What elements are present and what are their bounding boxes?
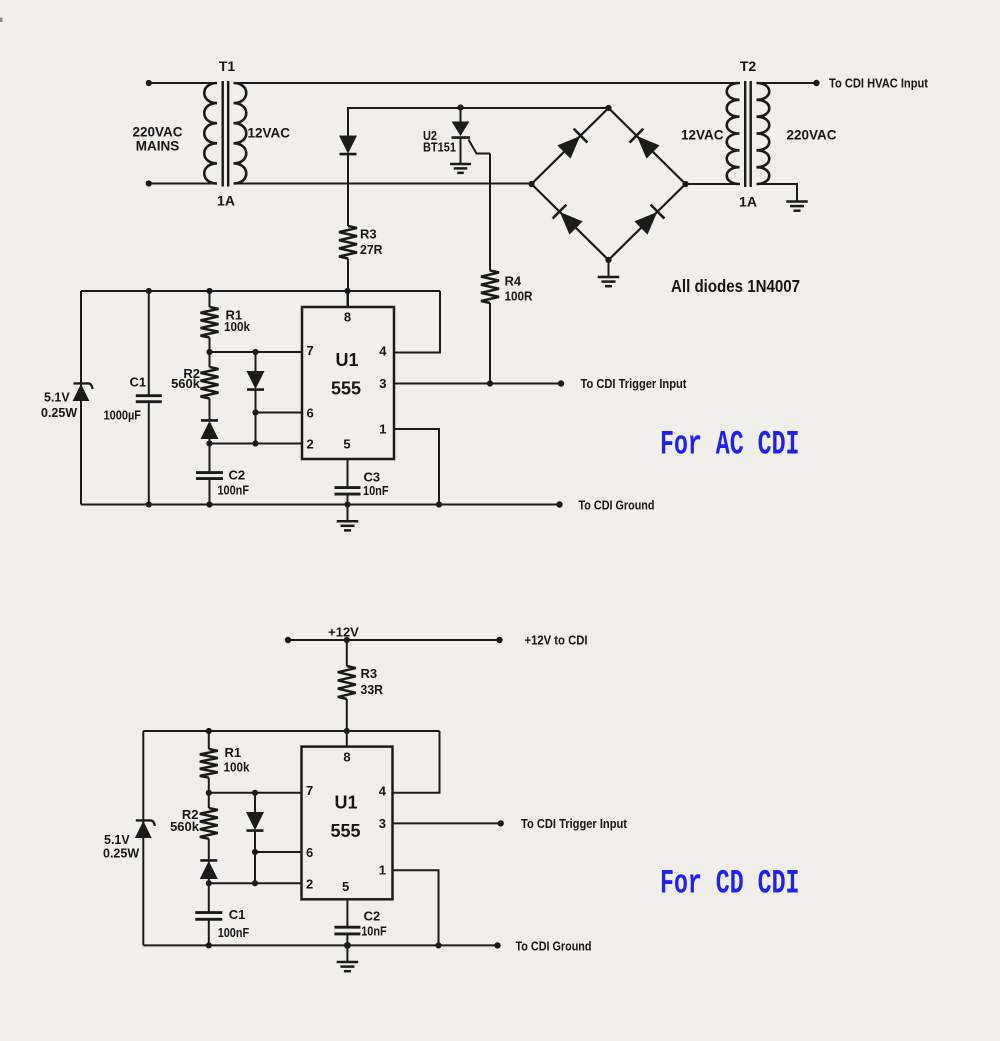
label R1 (bottom): [225, 745, 242, 760]
label T2: [740, 58, 757, 74]
resistor R2 560k (bottom circuit): [200, 793, 218, 839]
pin 3 label (bottom): [379, 816, 386, 831]
wire C1 top lead (bottom): [208, 883, 210, 911]
wire node to pin 6: [256, 412, 303, 414]
label T1: [219, 58, 236, 74]
capacitor C1 100nF (bottom circuit): [195, 913, 222, 920]
resistor R1 100k: [201, 307, 219, 338]
svg-text:100R: 100R: [505, 289, 534, 304]
svg-text:100k: 100k: [224, 760, 251, 775]
svg-text:1: 1: [379, 863, 386, 878]
op-amp U1 555 box: [302, 307, 394, 459]
label To CDI Ground: [579, 499, 655, 513]
label 555: [331, 379, 361, 399]
label 27R: [360, 242, 383, 257]
label To CDI Trigger Input: [581, 377, 688, 391]
wire bridge edge bottom-right: [609, 184, 686, 260]
label 0.25W: [41, 406, 77, 420]
capacitor C2 10nF (bottom circuit): [334, 927, 360, 934]
wire bridge right node to T2: [686, 183, 741, 185]
svg-text:7: 7: [307, 343, 314, 358]
svg-text:To CDI Trigger Input: To CDI Trigger Input: [521, 817, 628, 831]
wire node to pin 2 (bottom): [209, 882, 302, 884]
label 100k (bottom): [224, 760, 251, 775]
pin 6 label: [307, 406, 314, 421]
svg-text:To CDI Ground: To CDI Ground: [579, 499, 655, 513]
node: ground terminal (bottom circuit): [494, 942, 500, 948]
wire bottom ground rail: [81, 504, 560, 506]
wire C3 to rail: [347, 494, 349, 504]
wire bridge edge top-left: [532, 108, 609, 184]
label 220VAC MAINS: [132, 125, 182, 154]
label 555 (bottom): [330, 821, 360, 841]
svg-text:MAINS: MAINS: [136, 139, 180, 154]
svg-text:220VAC: 220VAC: [787, 128, 837, 143]
capacitor C1 1000uF: [136, 396, 162, 402]
wire secondary bottom to bridge: [234, 183, 532, 185]
label All diodes 1N4007: [671, 276, 800, 296]
wire pin 4 to top rail (bottom): [393, 731, 440, 793]
node: ground terminal: [556, 501, 562, 507]
wire C2 bottom lead: [209, 479, 211, 505]
wire pin 5 to C3: [347, 459, 349, 487]
svg-text:0.25W: 0.25W: [103, 847, 139, 861]
wire pin 8: [347, 291, 349, 307]
node C1 bottom: [146, 501, 152, 507]
node: trigger output terminal: [558, 380, 564, 386]
node pin6 junction (bottom): [252, 849, 258, 855]
svg-text:33R: 33R: [361, 682, 384, 697]
label To CDI Trigger Input (bottom): [521, 817, 628, 831]
label 5.1V (bottom): [104, 833, 130, 847]
svg-text:100nF: 100nF: [218, 483, 250, 498]
label 560k (bottom): [170, 819, 200, 834]
label 12VAC (T1 secondary): [248, 126, 291, 141]
node pin2 junction left: [206, 440, 212, 446]
corner artifact mark: [0, 18, 3, 23]
svg-text:1000µF: 1000µF: [104, 408, 142, 423]
svg-text:5.1V: 5.1V: [44, 391, 70, 405]
wire left vertical rail (bottom circuit): [142, 731, 144, 945]
bridge diode D5 (bottom to right): [635, 205, 664, 234]
label R2 (bottom): [182, 807, 199, 822]
svg-text:U1: U1: [335, 350, 358, 370]
pin 1 label (bottom): [379, 863, 386, 878]
ground (U2 cathode): [450, 164, 471, 173]
label C3: [364, 470, 381, 485]
label 100nF: [218, 483, 250, 498]
node pin1 rail junction: [436, 501, 442, 507]
resistor R3 33R (bottom circuit): [338, 666, 356, 699]
label 220VAC (T2 secondary): [787, 128, 837, 143]
svg-text:R4: R4: [505, 274, 522, 289]
label BT151: [423, 140, 456, 155]
node: CDI HVAC output terminal: [813, 80, 819, 86]
ground (bottom circuit): [337, 945, 359, 971]
pin 7 label (bottom): [306, 783, 313, 798]
pin 3 label: [379, 376, 386, 391]
pin 8 label: [344, 310, 351, 325]
pin 1 label: [379, 422, 386, 437]
bridge diode D2 (left to top): [558, 129, 587, 158]
label 10nF: [363, 483, 389, 498]
node junction SCR anode: [457, 104, 463, 110]
svg-text:27R: 27R: [360, 242, 383, 257]
diode D3b (discharge, bottom): [247, 793, 264, 831]
svg-text:For CD CDI: For CD CDI: [660, 866, 800, 904]
svg-text:BT151: BT151: [423, 140, 456, 155]
wire R4 to trigger line: [489, 303, 491, 384]
label To CDI Ground (bottom): [516, 940, 592, 954]
label 12VAC (T2 primary): [681, 128, 724, 143]
node: mains input bottom terminal: [146, 180, 152, 186]
svg-text:3: 3: [379, 816, 386, 831]
bridge diode D4 (bottom to left): [553, 205, 582, 234]
svg-text:555: 555: [330, 821, 360, 841]
wire mains top: [149, 82, 217, 84]
svg-text:R3: R3: [361, 666, 378, 681]
wire diode to node 6/2: [255, 390, 257, 444]
wire pin 8 (bottom): [346, 731, 348, 747]
wire node to pin 7 (bottom): [209, 792, 302, 794]
wire R3 to rail: [346, 699, 348, 731]
svg-text:6: 6: [306, 845, 313, 860]
node bridge left: [528, 181, 534, 187]
label U1: [335, 350, 358, 370]
node pin2 diode junction: [252, 440, 258, 446]
node R1 top: [206, 288, 212, 294]
label 100R: [505, 289, 534, 304]
pin 4 label (bottom): [379, 784, 387, 799]
svg-text:10nF: 10nF: [361, 924, 387, 939]
op-amp U1 555 box (bottom circuit): [302, 747, 393, 900]
resistor R4 100R: [481, 271, 499, 304]
diode D1: [340, 136, 357, 154]
wire left vertical rail: [80, 291, 82, 505]
wire C2 to rail (bottom): [346, 934, 348, 946]
svg-text:10nF: 10nF: [363, 483, 389, 498]
wire C1 top lead: [148, 291, 150, 395]
capacitor C2 100nF: [196, 473, 223, 479]
caption For CD CDI: [660, 866, 800, 904]
wire top supply rail (555 block): [81, 290, 440, 292]
wire mains bottom: [149, 183, 217, 185]
wire pin 4 to top rail: [394, 291, 440, 353]
label +12V to CDI: [525, 634, 588, 648]
svg-text:100k: 100k: [224, 319, 251, 334]
svg-text:C2: C2: [364, 909, 381, 924]
svg-text:C2: C2: [229, 468, 246, 483]
pin 5 label: [343, 437, 350, 452]
label R4: [505, 274, 522, 289]
label 0.25W (bottom): [103, 847, 139, 861]
svg-text:R3: R3: [360, 227, 377, 242]
pin 8 label (bottom): [343, 750, 350, 765]
wire pin 5 to C2 (bottom): [346, 899, 348, 926]
wire C2 top lead: [209, 444, 211, 472]
node pin1 rail junction (bottom): [435, 942, 441, 948]
ground (bridge bottom): [598, 260, 620, 286]
svg-text:0.25W: 0.25W: [41, 406, 77, 420]
label R2: [183, 366, 200, 381]
svg-text:12VAC: 12VAC: [681, 128, 724, 143]
svg-text:4: 4: [379, 344, 387, 359]
svg-text:7: 7: [306, 783, 313, 798]
svg-text:2: 2: [307, 437, 314, 452]
node pin6 junction: [252, 409, 258, 415]
svg-text:3: 3: [379, 376, 386, 391]
pin 7 label: [307, 343, 314, 358]
label To CDI HVAC Input: [829, 77, 929, 91]
node pin8 rail junction: [344, 288, 350, 294]
caption For AC CDI: [660, 427, 800, 465]
svg-text:All diodes 1N4007: All diodes 1N4007: [671, 276, 800, 296]
wire diode to node 6/2 (bottom): [254, 831, 256, 883]
wire node to pin 2: [210, 443, 303, 445]
node pin7 junction (bottom): [206, 790, 212, 796]
node R4 output junction: [487, 380, 493, 386]
pin 4 label: [379, 344, 387, 359]
wire top rail (bottom circuit): [143, 730, 439, 732]
node C3 ground junction: [344, 501, 350, 507]
svg-text:6: 6: [307, 406, 314, 421]
wire bottom ground rail (bottom circuit): [143, 944, 497, 946]
node diode branch top: [252, 349, 258, 355]
svg-text:12VAC: 12VAC: [248, 126, 291, 141]
transformer T1: [204, 81, 246, 187]
label 10nF (bottom): [361, 924, 387, 939]
svg-text:555: 555: [331, 379, 361, 399]
svg-text:560k: 560k: [171, 376, 201, 391]
svg-text:+12V: +12V: [328, 625, 359, 640]
svg-text:5: 5: [342, 879, 349, 894]
pin 6 label (bottom): [306, 845, 313, 860]
svg-text:To CDI HVAC Input: To CDI HVAC Input: [829, 77, 929, 91]
label R1: [226, 308, 243, 323]
label C1 (bottom): [229, 907, 246, 922]
svg-text:For AC CDI: For AC CDI: [660, 427, 800, 465]
wire diode D1 branch corner: [347, 108, 461, 137]
svg-text:C1: C1: [229, 907, 246, 922]
label +12V: [328, 625, 359, 640]
resistor R3 27R: [339, 226, 357, 259]
wire secondary top rail to T2: [234, 82, 741, 84]
label U1 (bottom): [334, 793, 357, 813]
pin 2 label (bottom): [306, 877, 313, 892]
wire pin 3 output (bottom): [393, 822, 501, 824]
svg-text:1A: 1A: [739, 194, 757, 210]
label 1000uF: [104, 408, 142, 423]
svg-text:R1: R1: [225, 745, 242, 760]
thyristor U2 BT151: [452, 108, 491, 163]
svg-text:To CDI Ground: To CDI Ground: [516, 940, 592, 954]
wire pin 1 to ground rail: [394, 429, 439, 505]
label U2: [423, 128, 437, 143]
bridge diode D3 (right to top): [630, 129, 659, 158]
diode D4a (charge): [201, 399, 218, 444]
svg-text:220VAC: 220VAC: [132, 125, 182, 140]
node bridge top: [605, 105, 611, 111]
pin 5 label (bottom): [342, 879, 349, 894]
wire pin 3 output: [394, 383, 561, 385]
wire C1 bottom lead (bottom): [208, 919, 210, 945]
label C2: [229, 468, 246, 483]
wire node to pin 7: [210, 351, 303, 353]
svg-text:560k: 560k: [170, 819, 200, 834]
wire R1 to node 7 (bottom): [208, 778, 210, 793]
svg-text:8: 8: [343, 750, 350, 765]
svg-text:To CDI Trigger Input: To CDI Trigger Input: [581, 377, 688, 391]
node R3 top junction: [344, 637, 350, 643]
node: +12V output terminal: [496, 637, 502, 643]
zener diode 5.1V (bottom circuit): [136, 820, 155, 837]
wire bridge top node to SCR line: [461, 107, 609, 109]
capacitor C3 10nF: [335, 488, 361, 495]
node bridge bottom: [605, 257, 611, 263]
svg-text:U1: U1: [334, 793, 357, 813]
label 33R: [361, 682, 384, 697]
resistor R2 560k: [201, 352, 219, 399]
label R3 (bottom): [361, 666, 378, 681]
ground (T2 secondary): [786, 202, 808, 211]
wire node to pin 6 (bottom): [255, 851, 302, 853]
node: mains input top terminal: [146, 80, 152, 86]
wire T2 HV output: [757, 82, 817, 84]
label C1: [130, 375, 147, 390]
svg-text:C1: C1: [130, 375, 147, 390]
label 560k: [171, 376, 201, 391]
label C2 (bottom): [364, 909, 381, 924]
wire R1 top lead: [209, 291, 211, 307]
svg-text:4: 4: [379, 784, 387, 799]
node: +12V left terminal: [285, 637, 291, 643]
wire +12V rail: [288, 639, 500, 641]
svg-text:+12V to CDI: +12V to CDI: [525, 634, 588, 648]
wire SCR gate to R4: [489, 154, 491, 271]
node C1 top: [146, 288, 152, 294]
wire pin 1 to ground rail (bottom): [393, 870, 439, 945]
svg-text:2: 2: [306, 877, 313, 892]
node: trigger output terminal (bottom): [498, 820, 504, 826]
wire C1 bottom lead: [148, 402, 150, 505]
node pin2 junction left (bottom): [206, 880, 212, 886]
node C2 bottom: [206, 501, 212, 507]
zener diode 5.1V: [73, 383, 92, 400]
label 100k: [224, 319, 251, 334]
wire R3 to pin 8 rail: [347, 259, 349, 309]
wire D1 cathode down to R3: [347, 155, 349, 227]
diode D3a (discharge): [247, 352, 264, 390]
wire T2 secondary bottom to ground: [757, 184, 798, 201]
node R1 top (bottom circuit): [206, 728, 212, 734]
svg-text:T1: T1: [219, 58, 236, 74]
wire bridge edge bottom-left: [532, 184, 609, 260]
transformer T2: [727, 81, 770, 187]
wire R1 top lead (bottom circuit): [208, 731, 210, 749]
label 5.1V: [44, 391, 70, 405]
svg-text:8: 8: [344, 310, 351, 325]
svg-text:5: 5: [343, 437, 350, 452]
node C1 bottom (bottom): [206, 942, 212, 948]
wire bridge edge top-right: [609, 108, 686, 184]
svg-text:5.1V: 5.1V: [104, 833, 130, 847]
node C2 ground junction (bottom): [344, 942, 351, 949]
svg-text:1A: 1A: [217, 193, 235, 209]
node pin2 diode junction (bottom): [252, 880, 258, 886]
node diode branch top (bottom): [252, 790, 258, 796]
node bridge right: [682, 181, 688, 187]
svg-text:100nF: 100nF: [218, 925, 250, 940]
svg-text:1: 1: [379, 422, 386, 437]
diode D4b (charge, bottom): [200, 839, 217, 883]
wire R3 top lead: [346, 640, 348, 666]
wire R1 to node 7: [209, 338, 211, 353]
label 1A (T2): [739, 194, 757, 210]
node pin8 rail junction (bottom): [344, 728, 350, 734]
resistor R1 100k (bottom circuit): [200, 749, 218, 778]
pin 2 label: [307, 437, 314, 452]
label R3: [360, 227, 377, 242]
label 1A (T1): [217, 193, 235, 209]
svg-text:T2: T2: [740, 58, 757, 74]
label 100nF (bottom): [218, 925, 250, 940]
ground (555 block): [337, 505, 359, 531]
node pin7 junction: [206, 349, 212, 355]
